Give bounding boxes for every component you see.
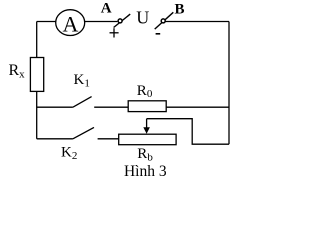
ammeter A bbox=[56, 10, 85, 37]
wire from terminal B to top-right corner bbox=[165, 21, 229, 23]
resistor R0 bbox=[128, 101, 166, 112]
wire right vertical rail bbox=[228, 22, 230, 145]
wire from ammeter to terminal A bbox=[85, 21, 118, 23]
svg-text:Hình 3: Hình 3 bbox=[124, 163, 167, 180]
switch K2 bbox=[37, 127, 119, 138]
wire top-left from left rail to ammeter bbox=[37, 21, 56, 23]
rheostat Rb bbox=[119, 134, 176, 145]
rheostat wiper arrow bbox=[143, 119, 150, 134]
switch K1 bbox=[37, 97, 129, 108]
terminal A (binding post) bbox=[114, 14, 131, 27]
svg-text:B: B bbox=[174, 1, 184, 17]
svg-text:A: A bbox=[63, 12, 79, 37]
minus sign at terminal B bbox=[156, 33, 161, 35]
svg-text:A: A bbox=[101, 0, 112, 16]
resistor Rx bbox=[30, 58, 43, 92]
terminal B (binding post) bbox=[155, 12, 174, 29]
wire from R0 to right rail bbox=[166, 106, 229, 108]
wire from wiper to right rail bbox=[147, 119, 229, 145]
svg-text:U: U bbox=[136, 8, 149, 28]
plus sign at terminal A bbox=[110, 28, 119, 37]
wire left vertical rail bbox=[36, 22, 38, 139]
